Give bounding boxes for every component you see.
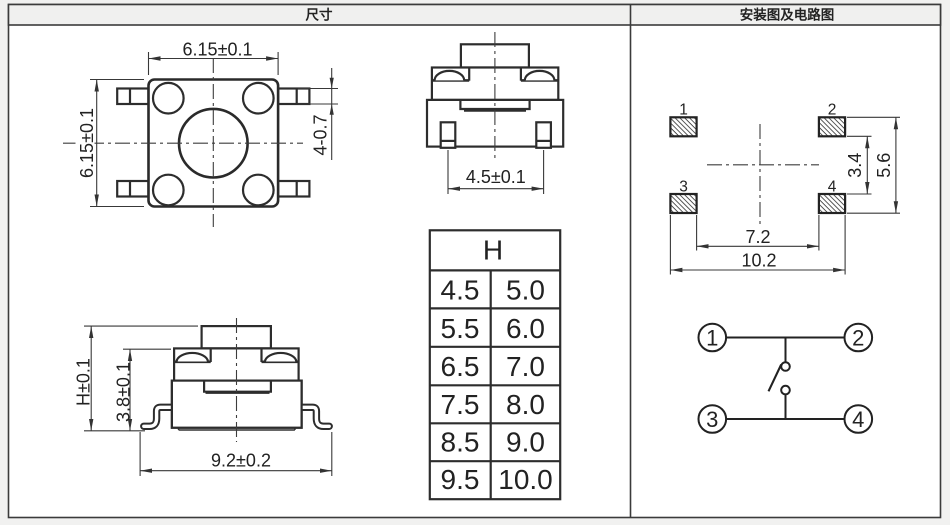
dimension 3.4: extension lines [847, 136, 872, 194]
wire bottom 3-4 [726, 418, 844, 420]
wire bottom stub [785, 394, 787, 419]
dimension 6.15±0.1 top: dimension line [149, 58, 279, 60]
top view leg lower-left [117, 181, 148, 197]
dimension 7.2: extension lines [697, 215, 819, 251]
svg-text:4.5: 4.5 [441, 275, 480, 306]
front view base recess [204, 381, 271, 393]
svg-text:6.15±0.1: 6.15±0.1 [183, 40, 253, 60]
header bar [9, 5, 941, 26]
dimension 3.4: dimension line [866, 136, 868, 194]
dimension 6.15±0.1 left: dimension line [96, 80, 98, 207]
dimension 7.2: dimension line [697, 245, 819, 247]
svg-text:尺寸: 尺寸 [306, 7, 333, 23]
H table row 5 [441, 426, 545, 457]
dimension 5.6: dimension line [895, 117, 897, 213]
front view base body [172, 381, 302, 428]
pad 2 [819, 117, 845, 136]
svg-text:6.5: 6.5 [441, 351, 480, 382]
top view corner dome bottom-right [243, 175, 274, 206]
side view cover [432, 68, 558, 100]
dimension 4-0.7 right: extension lines [298, 89, 338, 105]
svg-text:1: 1 [706, 325, 718, 350]
front view cover right notch [262, 348, 299, 362]
dimension 3.8±0.1: dimension line [129, 349, 131, 431]
switch arm [769, 365, 782, 392]
H table grid [430, 230, 560, 499]
svg-text:H±0.1: H±0.1 [74, 358, 94, 406]
front view gull-wing leg left [144, 407, 174, 426]
svg-text:8.5: 8.5 [441, 426, 480, 457]
top view corner dome bottom-left [153, 175, 184, 206]
svg-text:9.5: 9.5 [441, 464, 480, 495]
svg-text:10.0: 10.0 [498, 464, 553, 495]
side view right pin [536, 122, 551, 148]
side view left pin [441, 122, 456, 148]
dimension 10.2: dimension line [670, 269, 845, 271]
front view stem [202, 326, 271, 348]
H table row 3 [441, 351, 545, 382]
svg-text:5.5: 5.5 [441, 313, 480, 344]
top view leg lower-right [278, 181, 309, 197]
svg-text:7.2: 7.2 [745, 227, 770, 247]
dimension 4.5±0.1: extension lines [448, 150, 544, 194]
front view cover [174, 348, 299, 380]
contact lower [781, 386, 790, 395]
wire top stub [785, 338, 787, 363]
top view body [149, 80, 279, 207]
svg-text:3.4: 3.4 [845, 153, 865, 178]
svg-text:4.5±0.1: 4.5±0.1 [466, 167, 526, 187]
svg-text:1: 1 [679, 102, 688, 119]
front view cover right dome [265, 353, 297, 362]
dimension 6.15±0.1 left: text [76, 106, 95, 179]
H table row 4 [441, 389, 545, 420]
dimension 5.6: extension lines [847, 117, 900, 213]
svg-text:9.2±0.2: 9.2±0.2 [211, 451, 271, 471]
front view bottom lip [179, 428, 295, 430]
front view cover left dome [177, 353, 209, 362]
side view centerline [494, 32, 496, 162]
front view gull-wing leg right [299, 407, 329, 426]
svg-text:5.6: 5.6 [874, 153, 894, 178]
top view leg upper-left [117, 89, 148, 105]
svg-text:10.2: 10.2 [741, 251, 776, 271]
side view base body [427, 100, 563, 147]
pad 3 [670, 194, 696, 213]
pad 4 [819, 194, 845, 213]
front view centerline [236, 318, 238, 442]
svg-text:5.0: 5.0 [506, 275, 545, 306]
svg-text:9.0: 9.0 [506, 426, 545, 457]
dimension H±0.1: extension lines [84, 326, 198, 431]
top view leg upper-right [278, 89, 309, 105]
side view cover right notch [521, 68, 558, 81]
terminal circle 4 [845, 405, 873, 433]
front view base recess redraw [204, 381, 271, 393]
dimension 10.2: extension lines [670, 215, 845, 275]
contact upper [781, 362, 790, 371]
dimension 3.8±0.1: extension line [123, 348, 171, 350]
side view cover right dome [525, 71, 555, 81]
wire top 1-2 [726, 337, 844, 339]
dimension 6.15±0.1 top: extension lines [149, 52, 279, 75]
top view centerline vertical [212, 58, 214, 227]
front view base body redraw [172, 381, 302, 428]
svg-text:2: 2 [852, 325, 864, 350]
side view cover left notch [432, 68, 469, 81]
svg-text:8.0: 8.0 [506, 389, 545, 420]
H table row 6 [441, 464, 553, 495]
top view button circle [179, 109, 248, 178]
terminal circle 3 [699, 405, 727, 433]
top view corner dome top-right [243, 83, 274, 114]
svg-text:7.5: 7.5 [441, 389, 480, 420]
side view cover left dome [435, 71, 465, 81]
svg-text:H: H [483, 235, 503, 266]
dimension H±0.1: dimension line [90, 326, 92, 431]
svg-text:4: 4 [828, 178, 837, 195]
dimension 6.15±0.1 left: extension lines [90, 80, 144, 207]
svg-text:4: 4 [852, 407, 864, 432]
side view stem [461, 44, 529, 67]
svg-text:2: 2 [828, 102, 837, 119]
terminal circle 1 [699, 324, 727, 352]
svg-text:6.0: 6.0 [506, 313, 545, 344]
svg-text:3: 3 [706, 407, 718, 432]
H table row 2 [441, 313, 545, 344]
svg-text:4-0.7: 4-0.7 [311, 114, 331, 155]
side view base recess [460, 100, 529, 111]
dimension 4-0.7 right: dimension line with outside arrows [330, 68, 334, 160]
top view corner dome top-left [153, 83, 184, 114]
mounting centerline vertical [759, 124, 761, 228]
terminal circle 2 [845, 324, 873, 352]
mounting centerline horizontal [707, 164, 819, 166]
panel divider [630, 5, 632, 518]
dimension 9.2±0.2: extension lines [140, 432, 332, 476]
svg-text:6.15±0.1: 6.15±0.1 [77, 108, 97, 178]
front view cover left notch [174, 348, 211, 362]
svg-text:3: 3 [679, 178, 688, 195]
svg-text:安装图及电路图: 安装图及电路图 [740, 7, 835, 23]
H table row 1 [441, 275, 545, 306]
svg-text:7.0: 7.0 [506, 351, 545, 382]
pad 1 [670, 117, 696, 136]
svg-text:3.8±0.1: 3.8±0.1 [114, 362, 134, 422]
top view centerline horizontal [63, 142, 303, 144]
dimension 4.5±0.1: dimension line [448, 188, 544, 190]
dimension 9.2±0.2: dimension line [140, 470, 332, 472]
